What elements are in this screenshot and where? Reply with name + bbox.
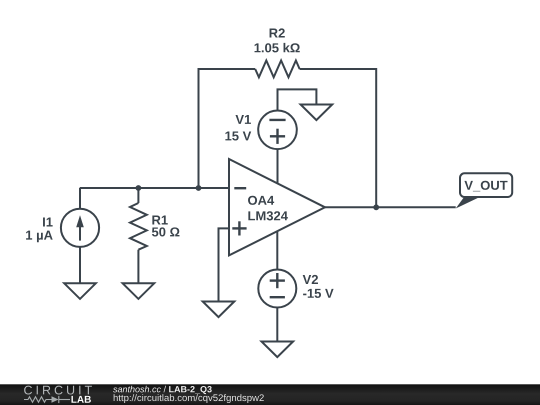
footer bar [0,384,540,405]
net name V_OUT [464,181,507,192]
ground at V1 [301,105,333,121]
value label 1 uA [26,231,53,243]
wire op-amp plus input to ground [219,228,230,301]
node dot output junction [373,204,379,210]
label V2 [303,275,318,284]
resistor R1 [130,188,147,283]
label I1 [43,218,53,227]
value label 15 V [225,131,251,140]
label V1 [235,115,250,124]
wire left riser and top segment to R2 [199,69,256,188]
logo squiggle resistor-diode [24,396,70,403]
logo LAB [71,396,90,403]
ground under V2 [262,342,294,358]
footer title [113,386,212,394]
ground under I1 [64,283,96,299]
voltage source V1 [258,89,316,184]
voltage source V2 [258,231,296,342]
flag V_OUT [456,173,513,208]
value label -15 V [303,289,333,298]
ground under R1 [123,283,155,299]
resistor R2 [255,61,299,78]
logo CIRCUIT [24,386,92,395]
wire R2 right to right riser [300,69,377,207]
label OA4 [248,196,274,205]
value label LM324 [248,211,288,220]
current source I1 [61,188,99,283]
ground at op-amp plus input [203,302,235,318]
value label 1.05 kOhm [255,43,300,53]
wire output net [325,206,456,208]
op-amp OA4 [229,159,325,255]
node dot feedback junction [196,185,202,191]
footer url [114,394,264,403]
wire input net horizontal [80,187,229,189]
node dot R1 junction [136,185,142,191]
label R2 [270,28,285,37]
value label 50 Ohm [152,227,180,236]
label R1 [152,216,167,225]
